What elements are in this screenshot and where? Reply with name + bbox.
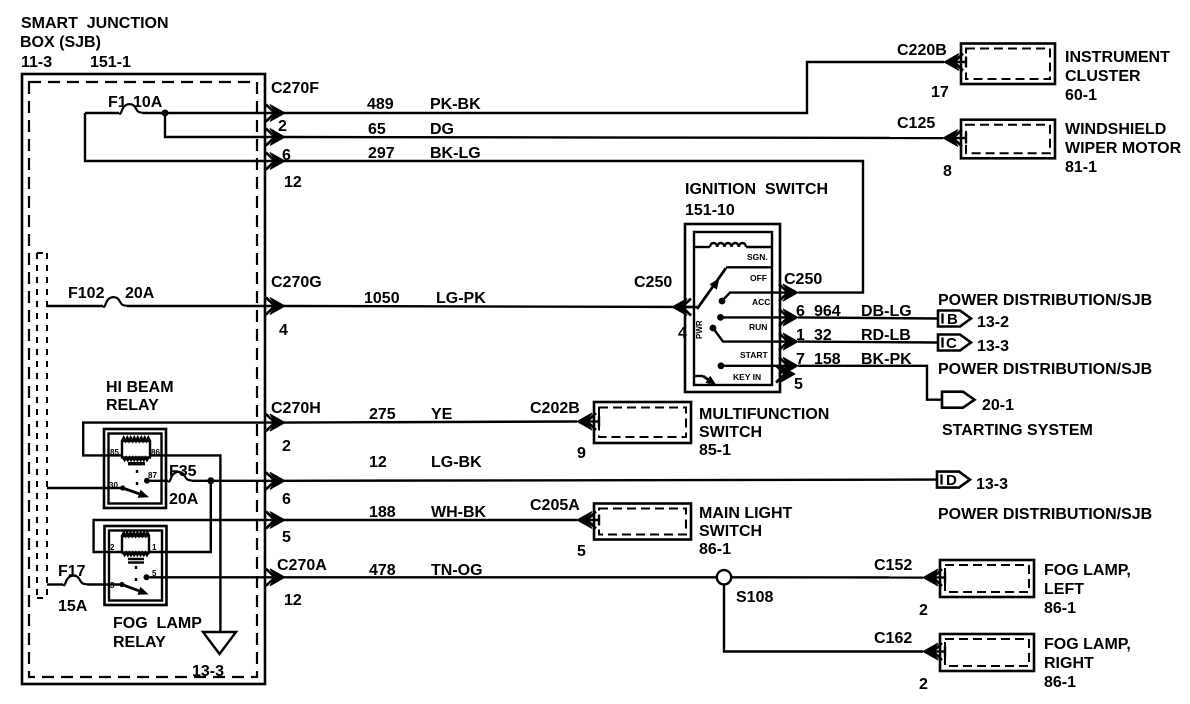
svg-text:FOG LAMP,: FOG LAMP, bbox=[1044, 636, 1131, 653]
node F35 junction bbox=[207, 477, 214, 484]
svg-text:17: 17 bbox=[931, 84, 949, 101]
connector C162 pin 2 bbox=[874, 630, 945, 693]
wire 65 DG bbox=[285, 121, 943, 138]
svg-text:RIGHT: RIGHT bbox=[1044, 655, 1094, 672]
PWR contact bbox=[695, 320, 772, 341]
wire fog coil 2 to pin 5 row bbox=[94, 520, 285, 552]
wire coil86 to ground line bbox=[150, 455, 220, 632]
svg-text:MULTIFUNCTION: MULTIFUNCTION bbox=[699, 406, 829, 423]
wire S108 to C162 bbox=[724, 585, 923, 652]
wire S108 to C152 bbox=[731, 576, 923, 579]
RUN contact bbox=[717, 314, 772, 332]
svg-text:20A: 20A bbox=[125, 285, 155, 302]
svg-text:MAIN LIGHT: MAIN LIGHT bbox=[699, 505, 793, 522]
connector C250 (right side of ignition) bbox=[772, 271, 822, 301]
svg-text:POWER DISTRIBUTION/SJB: POWER DISTRIBUTION/SJB bbox=[938, 292, 1152, 309]
svg-text:LG-PK: LG-PK bbox=[436, 290, 486, 307]
wire 297 BK-LG bbox=[285, 145, 863, 293]
fog relay switch 3/5 bbox=[110, 566, 157, 598]
svg-text:275: 275 bbox=[369, 406, 396, 423]
wire to 65 DG row bbox=[165, 113, 285, 137]
svg-text:2: 2 bbox=[919, 676, 928, 693]
svg-text:LG-BK: LG-BK bbox=[431, 454, 482, 471]
svg-text:13-3: 13-3 bbox=[976, 476, 1008, 493]
connector D to power distribution bbox=[937, 472, 1152, 523]
svg-text:87: 87 bbox=[148, 471, 157, 480]
svg-text:188: 188 bbox=[369, 504, 396, 521]
instrument cluster box bbox=[961, 44, 1170, 105]
wiper arm from C250-4 bbox=[685, 268, 726, 309]
svg-text:BOX (SJB): BOX (SJB) bbox=[20, 34, 101, 51]
svg-text:RUN: RUN bbox=[749, 322, 767, 332]
connector C220B bbox=[897, 42, 966, 101]
svg-text:20A: 20A bbox=[169, 491, 199, 508]
svg-text:SGN.: SGN. bbox=[747, 252, 768, 262]
wire to 297 row bbox=[85, 113, 285, 161]
fog lamp left box bbox=[940, 560, 1131, 617]
wire 275 YE bbox=[285, 406, 577, 423]
svg-text:RELAY: RELAY bbox=[113, 634, 166, 651]
connector C202B pin 9 bbox=[530, 400, 599, 462]
wire 12 LG-BK bbox=[285, 454, 937, 481]
svg-text:SMART JUNCTION: SMART JUNCTION bbox=[21, 15, 169, 32]
svg-text:60-1: 60-1 bbox=[1065, 87, 1097, 104]
svg-text:151-1: 151-1 bbox=[90, 54, 131, 71]
ignition coil + SGN bbox=[694, 243, 772, 262]
svg-text:86-1: 86-1 bbox=[699, 541, 731, 558]
ACC contact bbox=[719, 293, 772, 307]
svg-text:1050: 1050 bbox=[364, 290, 400, 307]
splice S108 bbox=[717, 570, 774, 606]
svg-text:POWER DISTRIBUTION/SJB: POWER DISTRIBUTION/SJB bbox=[938, 361, 1152, 378]
svg-text:LEFT: LEFT bbox=[1044, 581, 1084, 598]
fog relay coil (2/1) bbox=[110, 533, 157, 563]
KEY IN arm bbox=[694, 372, 761, 389]
label SMART JUNCTION BOX (SJB) bbox=[20, 15, 169, 71]
svg-text:RELAY: RELAY bbox=[106, 397, 159, 414]
svg-text:2: 2 bbox=[282, 438, 291, 455]
connector pin 5 arrow bbox=[266, 512, 291, 547]
svg-text:WH-BK: WH-BK bbox=[431, 504, 487, 521]
svg-text:5: 5 bbox=[794, 376, 803, 393]
svg-text:C152: C152 bbox=[874, 557, 912, 574]
svg-text:SWITCH: SWITCH bbox=[699, 523, 762, 540]
svg-text:KEY IN: KEY IN bbox=[733, 372, 761, 382]
ignition switch box bbox=[685, 224, 780, 392]
connector C205A pin 5 bbox=[530, 497, 599, 560]
svg-text:13-2: 13-2 bbox=[977, 314, 1009, 331]
connector C270F pin 6 arrow bbox=[266, 129, 285, 146]
svg-text:15A: 15A bbox=[58, 598, 88, 615]
svg-text:WINDSHIELD: WINDSHIELD bbox=[1065, 121, 1166, 138]
connector 20-1 starting system bbox=[942, 392, 1093, 439]
svg-text:489: 489 bbox=[367, 96, 394, 113]
wiper motor box bbox=[961, 120, 1182, 176]
svg-text:5: 5 bbox=[577, 543, 586, 560]
fog lamp right box bbox=[940, 634, 1131, 691]
svg-text:5: 5 bbox=[282, 529, 291, 546]
svg-text:FOG LAMP: FOG LAMP bbox=[113, 615, 202, 632]
OFF contact bbox=[726, 267, 772, 283]
svg-text:8: 8 bbox=[943, 163, 952, 180]
svg-text:F17: F17 bbox=[58, 563, 86, 580]
svg-text:2: 2 bbox=[919, 602, 928, 619]
svg-text:86-1: 86-1 bbox=[1044, 674, 1076, 691]
svg-text:C270A: C270A bbox=[277, 557, 327, 574]
svg-text:151-10: 151-10 bbox=[685, 202, 735, 219]
connector C270G pin 4 arrow bbox=[266, 274, 322, 339]
svg-text:INSTRUMENT: INSTRUMENT bbox=[1065, 49, 1170, 66]
relay switch 30/87 bbox=[109, 470, 157, 501]
fuse F17 15A bbox=[47, 563, 122, 615]
connector C152 pin 2 bbox=[874, 557, 945, 619]
svg-text:C250: C250 bbox=[784, 271, 822, 288]
svg-text:C202B: C202B bbox=[530, 400, 580, 417]
svg-text:C205A: C205A bbox=[530, 497, 580, 514]
wire 1050 LG-PK bbox=[285, 290, 694, 307]
connector C270F pin 2 arrow bbox=[266, 105, 285, 122]
svg-text:ACC: ACC bbox=[752, 297, 770, 307]
wire RUN out pin 1 / 32 RD-LB bbox=[772, 327, 938, 350]
wire 30 from bus bbox=[47, 487, 123, 489]
relay K-hibeam box bbox=[104, 429, 166, 508]
wire 489 feed bbox=[85, 112, 119, 114]
svg-text:12: 12 bbox=[369, 454, 387, 471]
svg-text:C270H: C270H bbox=[271, 400, 321, 417]
connector C270H pin 2 arrow bbox=[266, 400, 321, 455]
connector C270F pin 12 arrow bbox=[266, 153, 285, 170]
svg-text:3: 3 bbox=[110, 581, 115, 590]
svg-text:C270G: C270G bbox=[271, 274, 322, 291]
svg-text:CLUSTER: CLUSTER bbox=[1065, 68, 1141, 85]
connector C250 pin 4 (left of ignition switch) bbox=[634, 274, 691, 342]
svg-text:12: 12 bbox=[284, 592, 302, 609]
svg-text:10A: 10A bbox=[133, 94, 163, 111]
svg-text:12: 12 bbox=[284, 174, 302, 191]
connector C125 bbox=[897, 115, 966, 180]
svg-text:65: 65 bbox=[368, 121, 386, 138]
svg-text:WIPER MOTOR: WIPER MOTOR bbox=[1065, 140, 1182, 157]
connector C270A pin 12 arrow bbox=[266, 557, 327, 609]
wire F35 to fog relay coil 1 bbox=[149, 481, 211, 552]
wire 489 PK-BK bbox=[285, 62, 944, 113]
relay fog lamp box bbox=[105, 526, 167, 605]
svg-text:C125: C125 bbox=[897, 115, 935, 132]
svg-text:13-3: 13-3 bbox=[977, 338, 1009, 355]
svg-text:PK-BK: PK-BK bbox=[430, 96, 481, 113]
svg-text:86-1: 86-1 bbox=[1044, 600, 1076, 617]
svg-text:20-1: 20-1 bbox=[982, 397, 1014, 414]
svg-text:S108: S108 bbox=[736, 589, 773, 606]
svg-text:13-3: 13-3 bbox=[192, 663, 224, 680]
svg-text:IGNITION SWITCH: IGNITION SWITCH bbox=[685, 181, 828, 198]
main light switch box bbox=[594, 504, 793, 559]
svg-text:1: 1 bbox=[152, 543, 157, 552]
svg-text:D: D bbox=[946, 472, 957, 489]
relay coil (85/86) bbox=[110, 438, 160, 466]
svg-text:C162: C162 bbox=[874, 630, 912, 647]
SJB internal dashed bus bbox=[37, 253, 47, 598]
wire 478 TN-OG bbox=[150, 562, 718, 579]
svg-text:B: B bbox=[947, 311, 958, 328]
KEY IN out pin 5 bbox=[776, 366, 803, 394]
node F1 output bbox=[162, 110, 169, 117]
wire coil85 to C270H bbox=[83, 423, 285, 456]
svg-text:C250: C250 bbox=[634, 274, 672, 291]
svg-text:POWER DISTRIBUTION/SJB: POWER DISTRIBUTION/SJB bbox=[938, 506, 1152, 523]
wire 188 WH-BK bbox=[285, 504, 577, 521]
svg-text:6: 6 bbox=[282, 491, 291, 508]
svg-text:11-3: 11-3 bbox=[21, 54, 52, 71]
svg-text:2: 2 bbox=[278, 118, 287, 135]
svg-text:HI BEAM: HI BEAM bbox=[106, 379, 174, 396]
fuse F35 20A bbox=[150, 463, 285, 508]
svg-text:4: 4 bbox=[279, 322, 288, 339]
svg-text:FOG LAMP,: FOG LAMP, bbox=[1044, 562, 1131, 579]
multifunction switch box bbox=[594, 402, 829, 459]
svg-text:9: 9 bbox=[577, 445, 586, 462]
connector B 13-2 bbox=[938, 311, 1009, 332]
svg-text:OFF: OFF bbox=[750, 273, 767, 283]
svg-text:C220B: C220B bbox=[897, 42, 947, 59]
svg-text:YE: YE bbox=[431, 406, 453, 423]
SJB outer box bbox=[22, 74, 265, 684]
svg-text:85-1: 85-1 bbox=[699, 442, 731, 459]
svg-text:PWR: PWR bbox=[695, 320, 704, 339]
connector pin 6 arrow bbox=[266, 472, 291, 508]
svg-text:F102: F102 bbox=[68, 285, 105, 302]
svg-text:STARTING SYSTEM: STARTING SYSTEM bbox=[942, 422, 1093, 439]
svg-text:F35: F35 bbox=[169, 463, 197, 480]
START contact bbox=[718, 350, 772, 369]
svg-text:C270F: C270F bbox=[271, 80, 319, 97]
fuse F102 20A bbox=[47, 285, 285, 307]
svg-text:81-1: 81-1 bbox=[1065, 159, 1097, 176]
svg-text:BK-LG: BK-LG bbox=[430, 145, 481, 162]
wire ACC out pin 6 / 964 DB-LG bbox=[772, 303, 938, 326]
svg-text:C: C bbox=[946, 335, 957, 352]
svg-text:2: 2 bbox=[110, 543, 115, 552]
svg-text:297: 297 bbox=[368, 145, 395, 162]
connector C 13-3 bbox=[938, 335, 1009, 356]
svg-text:START: START bbox=[740, 350, 769, 360]
svg-text:DG: DG bbox=[430, 121, 454, 138]
wire START out pin 7 / 158 BK-PK bbox=[772, 351, 941, 400]
SJB dashed box bbox=[29, 82, 257, 677]
fuse F1 10A bbox=[108, 94, 163, 114]
svg-text:SWITCH: SWITCH bbox=[699, 424, 762, 441]
